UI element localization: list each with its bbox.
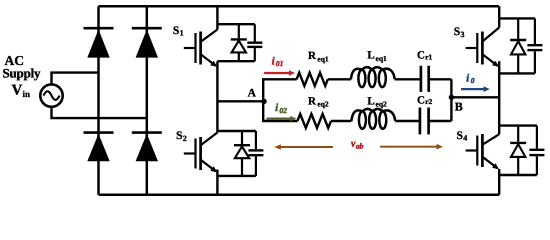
svg-text:V: V — [12, 83, 23, 99]
svg-text:C: C — [417, 50, 425, 62]
diode DS1 antiparallel of S1 — [217, 24, 254, 61]
wire node A leg — [217, 100, 264, 102]
resistor Req2 — [297, 114, 331, 128]
wire — [430, 78, 451, 80]
svg-text:L: L — [367, 50, 374, 62]
svg-text:0: 0 — [471, 76, 475, 85]
svg-text:1: 1 — [180, 29, 184, 38]
wire — [328, 78, 351, 80]
wire node B branch merge — [450, 79, 452, 121]
wire — [430, 120, 451, 122]
svg-text:eq2: eq2 — [317, 100, 329, 109]
capacitor Cr1 — [421, 66, 429, 92]
IGBT S4 — [466, 134, 500, 195]
svg-text:Supply: Supply — [3, 66, 42, 81]
resistor Req1 — [297, 73, 328, 86]
label Cr2 — [417, 94, 433, 106]
svg-text:r1: r1 — [425, 52, 432, 61]
label S1 — [173, 25, 184, 38]
inductor Leq2 — [351, 109, 395, 129]
svg-text:L: L — [367, 95, 374, 107]
arrow vab left — [274, 144, 333, 150]
label S4 — [457, 130, 468, 143]
svg-text:A: A — [248, 88, 257, 100]
diode D2 top-right of bridge — [132, 28, 162, 57]
svg-text:S: S — [173, 25, 179, 37]
diode D3 bottom-left of bridge — [84, 133, 114, 162]
svg-text:in: in — [23, 89, 31, 99]
svg-text:S: S — [176, 130, 182, 142]
diode D1 top-left of bridge — [84, 28, 114, 57]
arrow i01 current — [264, 70, 295, 76]
wire node A branch split — [263, 79, 297, 121]
IGBT S2 — [184, 133, 218, 195]
svg-text:ab: ab — [356, 142, 364, 151]
svg-text:02: 02 — [279, 106, 287, 115]
svg-text:eq1: eq1 — [317, 54, 329, 63]
label i0 — [466, 72, 475, 85]
label Req1 — [308, 50, 329, 63]
capacitor CS2 snubber of S2 — [217, 131, 263, 176]
svg-text:S: S — [457, 130, 463, 142]
svg-text:S: S — [454, 26, 460, 38]
wire top rail — [99, 5, 499, 8]
wire AC bottom lead — [52, 107, 147, 118]
label i01 — [272, 55, 284, 68]
svg-text:C: C — [417, 94, 425, 106]
svg-text:4: 4 — [463, 134, 467, 143]
capacitor CS3 snubber of S3 — [499, 18, 542, 73]
svg-text:r2: r2 — [425, 97, 432, 106]
svg-text:R: R — [308, 50, 317, 62]
diode DS2 antiparallel of S2 — [217, 131, 256, 176]
arrow i02 current — [267, 116, 297, 121]
diode DS4 antiparallel of S4 — [499, 126, 537, 175]
wire — [395, 78, 420, 80]
svg-text:01: 01 — [276, 59, 284, 68]
IGBT S1 — [184, 6, 218, 132]
label AC Supply Vin — [3, 53, 42, 99]
svg-text:B: B — [455, 100, 463, 114]
wire — [331, 120, 351, 122]
arrow vab right — [380, 144, 443, 150]
svg-text:3: 3 — [461, 30, 465, 39]
wire bottom rail — [99, 193, 500, 196]
diode DS3 antiparallel of S3 — [499, 18, 535, 73]
capacitor CS4 snubber of S4 — [499, 126, 544, 175]
diode D4 bottom-right of bridge — [132, 133, 162, 162]
label Req2 — [308, 96, 329, 109]
wire right bridge leg — [146, 6, 149, 195]
capacitor Cr2 — [420, 108, 429, 135]
IGBT S3 — [466, 6, 500, 134]
svg-text:eq2: eq2 — [376, 100, 388, 109]
label Leq2 — [367, 95, 387, 108]
label S2 — [176, 130, 187, 143]
AC source Vin — [40, 84, 62, 106]
wire — [395, 120, 418, 122]
svg-text:2: 2 — [183, 134, 187, 143]
svg-text:eq1: eq1 — [376, 54, 388, 63]
inductor Leq1 — [351, 67, 395, 87]
wire AC top lead — [52, 73, 99, 85]
label i02 — [275, 102, 287, 115]
label S3 — [454, 26, 465, 39]
wire left bridge leg — [97, 6, 100, 195]
node A junction dot — [261, 99, 266, 104]
svg-text:i: i — [466, 72, 470, 84]
label vab — [351, 139, 364, 151]
capacitor CS1 snubber of S1 — [217, 24, 262, 61]
label Cr1 — [417, 50, 433, 62]
wire node B leg — [451, 96, 499, 98]
label Leq1 — [367, 50, 387, 63]
svg-text:R: R — [308, 96, 317, 108]
node B junction dot — [449, 95, 454, 100]
arrow i0 current — [461, 86, 490, 92]
